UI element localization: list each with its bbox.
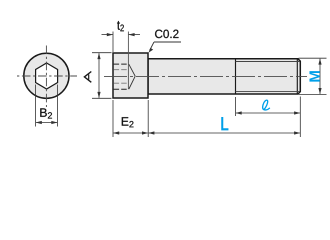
socket hidden line outer bottom [114,88,129,90]
thread root line top [236,61,300,63]
leader underline [154,41,181,43]
ell/L extension line right [299,97,301,138]
M dimension line [318,58,321,94]
socket hidden line inner bottom [114,82,129,84]
t2 dimension line left tail with arrow [102,33,114,36]
screw shaft body [148,59,300,94]
A extension line bottom [92,97,112,99]
label C0.2 [155,30,178,38]
socket hidden line outer top [114,63,129,65]
A dimension line [97,53,100,98]
A extension line top [92,52,112,54]
label A (rotated) [84,72,91,83]
B2 extension line right [57,85,59,127]
ell extension line left [235,97,237,116]
t2 dimension line right tail with arrow [128,33,140,36]
t2 extension line left [112,32,114,53]
label t2 [117,21,124,31]
label L [221,117,228,130]
E2 dimension line [113,131,148,134]
thread start line [235,59,237,94]
L dimension line [148,131,300,134]
screw head (side view) [113,53,148,98]
socket cone upper [129,64,135,76]
hex socket (end view) [36,63,58,89]
ell dimension line [236,111,301,114]
horizontal centerline (end view) [17,75,77,77]
label E2 [122,117,134,127]
chamfer line at tip [296,59,298,93]
label B2 [40,108,52,118]
leader diagonal with arrowhead [149,42,154,53]
head circle (end view) [24,53,69,98]
B2 dimension line [36,121,58,124]
M extension line top [299,57,327,59]
label M (rotated) [309,71,319,81]
B2 extension line left [35,85,37,127]
label ell [263,100,270,110]
E2 extension line right [147,100,149,137]
socket bottom vertical line [127,32,129,90]
socket hidden line inner top [114,69,129,71]
centerline (side view) [104,75,307,77]
thread root line bottom [236,90,300,92]
M extension line bottom [299,93,327,95]
vertical centerline (end view) [45,46,47,108]
E2 extension line left [112,100,114,137]
socket cone lower [129,76,135,89]
